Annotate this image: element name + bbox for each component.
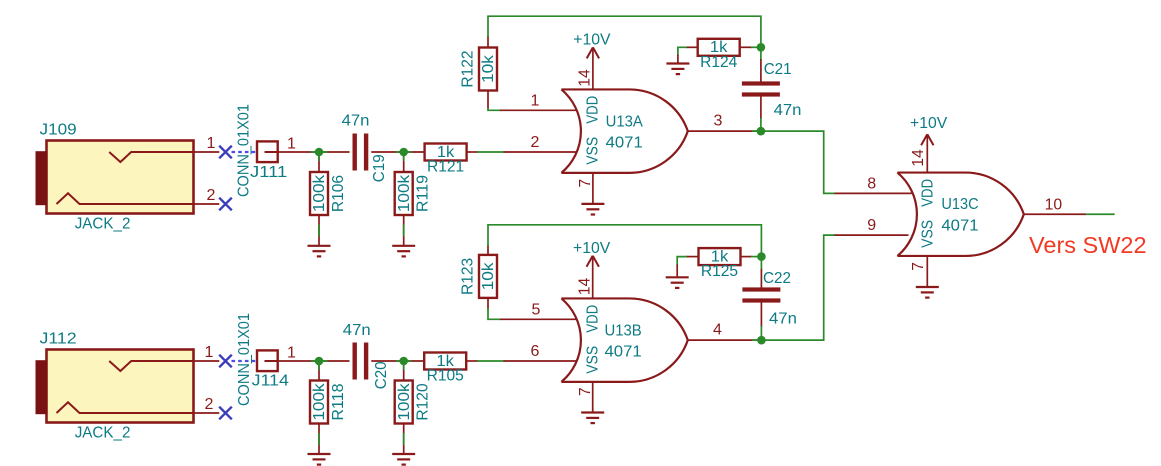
svg-text:R125: R125	[701, 263, 738, 280]
svg-text:R119: R119	[415, 175, 432, 212]
svg-text:JACK_2: JACK_2	[75, 424, 131, 441]
svg-text:14: 14	[577, 69, 594, 87]
svg-text:7: 7	[577, 179, 594, 188]
svg-text:4071: 4071	[941, 217, 978, 234]
svg-text:14: 14	[577, 277, 594, 295]
svg-text:+10V: +10V	[573, 32, 611, 49]
svg-text:5: 5	[532, 301, 541, 318]
svg-text:2: 2	[205, 396, 214, 413]
svg-text:4071: 4071	[605, 344, 642, 361]
svg-text:J112: J112	[40, 330, 77, 347]
svg-text:Vers SW22: Vers SW22	[1029, 232, 1147, 258]
svg-text:VDD: VDD	[585, 305, 602, 333]
svg-text:J114: J114	[252, 372, 290, 389]
svg-text:VSS: VSS	[920, 220, 937, 248]
svg-text:6: 6	[531, 343, 540, 360]
svg-text:47n: 47n	[774, 102, 802, 119]
svg-text:1: 1	[287, 136, 296, 153]
svg-text:VDD: VDD	[920, 179, 937, 207]
svg-text:14: 14	[910, 149, 927, 167]
svg-text:47n: 47n	[769, 311, 797, 328]
svg-text:1: 1	[205, 344, 214, 361]
svg-text:R118: R118	[330, 383, 347, 420]
svg-text:C19: C19	[371, 154, 388, 182]
svg-text:R124: R124	[700, 54, 737, 71]
svg-text:R105: R105	[427, 368, 464, 385]
svg-text:U13A: U13A	[606, 114, 644, 131]
svg-text:R123: R123	[460, 258, 477, 295]
svg-text:4: 4	[713, 322, 722, 339]
svg-text:JACK_2: JACK_2	[75, 216, 131, 233]
svg-text:R121: R121	[427, 159, 464, 176]
svg-text:1: 1	[287, 345, 296, 362]
svg-text:C22: C22	[763, 270, 791, 287]
svg-text:U13C: U13C	[941, 196, 978, 213]
svg-text:100k: 100k	[311, 383, 328, 420]
svg-text:10k: 10k	[480, 55, 497, 83]
svg-text:100k: 100k	[396, 383, 413, 420]
svg-text:J111: J111	[250, 164, 287, 181]
svg-text:C20: C20	[373, 361, 390, 389]
svg-text:J109: J109	[40, 121, 77, 138]
svg-text:4071: 4071	[606, 134, 643, 151]
svg-text:+10V: +10V	[573, 240, 611, 257]
svg-text:10k: 10k	[480, 262, 497, 290]
svg-text:7: 7	[577, 387, 594, 396]
svg-text:R122: R122	[460, 50, 477, 87]
svg-text:7: 7	[910, 262, 927, 271]
svg-text:100k: 100k	[396, 175, 413, 212]
svg-text:R106: R106	[330, 175, 347, 212]
svg-text:8: 8	[867, 175, 876, 192]
svg-text:VDD: VDD	[585, 96, 602, 124]
svg-text:CONN_01X01: CONN_01X01	[236, 313, 253, 406]
svg-text:+10V: +10V	[910, 115, 948, 132]
svg-text:VSS: VSS	[585, 137, 602, 165]
svg-text:47n: 47n	[342, 113, 370, 130]
svg-text:U13B: U13B	[605, 323, 642, 340]
svg-text:1: 1	[531, 92, 540, 109]
svg-text:2: 2	[531, 134, 540, 151]
svg-text:10: 10	[1045, 196, 1063, 213]
svg-text:9: 9	[867, 217, 876, 234]
svg-text:3: 3	[714, 113, 723, 130]
svg-text:2: 2	[207, 187, 216, 204]
svg-text:47n: 47n	[343, 322, 371, 339]
svg-text:100k: 100k	[311, 175, 328, 212]
svg-text:CONN_01X01: CONN_01X01	[236, 104, 253, 197]
svg-text:VSS: VSS	[585, 346, 602, 374]
svg-text:R120: R120	[415, 383, 432, 421]
svg-text:C21: C21	[764, 61, 792, 78]
svg-text:1: 1	[207, 135, 216, 152]
